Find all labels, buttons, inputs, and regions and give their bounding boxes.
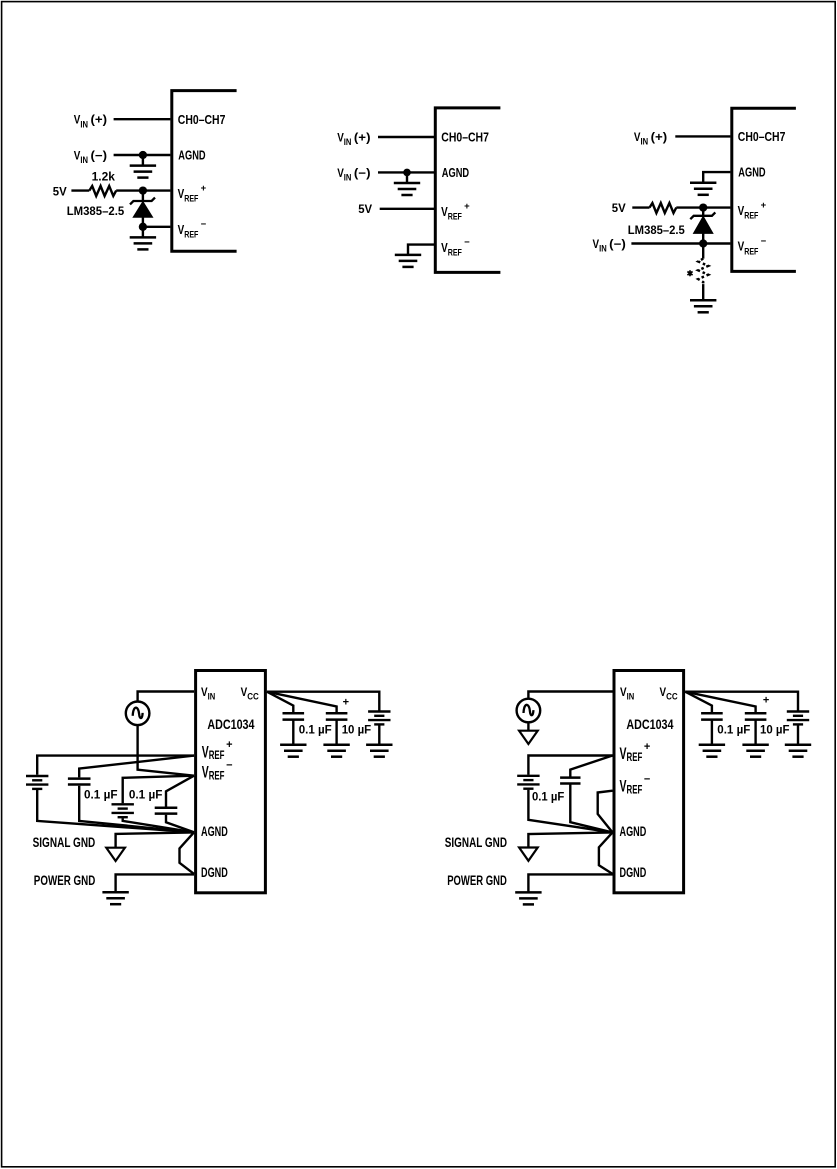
label * (asterisk) [687,270,692,276]
svg-text:AGND: AGND [442,165,469,180]
svg-text:CH0–CH7: CH0–CH7 [178,112,226,127]
svg-text:DGND: DGND [201,865,228,880]
ground (analog) [394,183,420,195]
ground (B3) [366,745,392,757]
battery B5 (supply) [787,712,809,725]
ground (reference) [395,255,421,267]
wire AC source to signal ground [527,722,529,730]
wire VIN(+) to CH0-CH7 [114,118,171,120]
junction dot on AGND wire [139,151,147,159]
AC signal source [126,702,150,726]
optional resistor (dotted) [698,259,708,285]
wire VREF+ to battery [528,756,612,775]
wire battery B3 to ground [378,724,380,744]
power ground [102,892,128,904]
ground (reference) [130,237,156,249]
wire capacitor C1 to AGND [79,786,194,833]
wire 5V to resistor [71,189,89,191]
wire [142,217,144,227]
zener diode anode triangle [694,216,713,233]
wire to ground [142,155,144,166]
wire capacitor C1 to VREF+ [79,756,194,778]
svg-text:POWER GND: POWER GND [34,873,96,888]
resistor (bias) [650,203,677,213]
wire SIGNAL GND to AGND [116,832,194,847]
ground (analog) [690,183,716,195]
wire capacitor C5 to VREF+ [570,756,612,777]
wire capacitor C3 to ground [292,720,294,745]
svg-text:DGND: DGND [620,865,647,880]
wire DGND to power ground [116,874,194,892]
svg-text:AGND: AGND [738,165,765,180]
svg-text:AGND: AGND [620,824,647,839]
wire capacitor C2 to AGND [166,815,194,833]
wire VIN(-) / VREF- [631,242,730,244]
wire VIN to AC source [528,692,612,699]
wire VCC rail [267,692,379,712]
wire VCC to capacitor C4 [267,692,337,714]
signal ground triangle [519,848,538,861]
wire [142,191,144,201]
AC signal source [517,699,541,723]
svg-text:LM385–2.5: LM385–2.5 [67,204,125,218]
power ground [515,892,541,904]
wire VREF- to AGND bracket [598,791,613,833]
wire battery B2 to AGND [123,818,194,832]
wire VCC rail [685,692,798,712]
ground (analog) [130,166,156,178]
svg-text:LM385–2.5: LM385–2.5 [628,223,685,237]
wire capacitor C4 to ground [335,720,337,745]
signal ground triangle [106,848,125,861]
wire VREF+ rail [37,756,194,775]
junction dot at VREF- node [699,239,707,247]
svg-text:+: + [343,696,349,708]
wire [702,208,704,216]
wire DGND to power ground [528,874,612,892]
IC box (ADC, top-left circuit) [172,91,237,252]
wire 5V to VREF+ [380,208,434,210]
svg-text:SIGNAL GND: SIGNAL GND [445,835,507,850]
capacitor C1 0.1uF [68,779,91,785]
zener cathode bar [130,198,155,205]
svg-text:AGND: AGND [178,148,205,163]
ground (reference) [690,300,716,312]
capacitor C5 0.1uF [560,778,580,784]
wire VIN to AC source [138,692,194,702]
IC box (ADC, top-middle circuit) [435,108,500,273]
wire SIGNAL GND to AGND [528,832,612,847]
svg-text:ADC1034: ADC1034 [626,717,674,732]
wire VCC to capacitor C3 [267,692,293,714]
wire VREF- to ground [408,245,434,255]
svg-text:0.1 µF: 0.1 µF [129,788,163,802]
svg-text:ADC1034: ADC1034 [207,717,255,732]
wire battery B4 to AGND [528,790,612,833]
zener diode LM385-2.5 [690,208,715,244]
battery B3 (supply) [368,712,390,725]
svg-text:+: + [763,694,769,706]
svg-text:CH0–CH7: CH0–CH7 [441,130,489,145]
wire VCC to capacitor C6 [685,692,712,714]
junction dot at VREF+ node [699,203,707,211]
svg-text:5V: 5V [358,202,372,216]
IC U1 ADC1034 box [196,671,266,893]
wire VCC to capacitor C7 [685,692,755,714]
wire AGND to ground [703,172,730,183]
wire VIN(+) to CH0-CH7 [378,136,434,138]
zener diode anode triangle [133,202,152,218]
ground (C3) [280,745,306,757]
wire resistor to VREF+ [676,206,730,208]
junction dot at VREF- node [139,223,147,231]
IC box (ADC, top-right circuit) [732,108,796,271]
svg-text:CH0–CH7: CH0–CH7 [738,129,786,144]
wire capacitor C2 to VREF- [166,776,194,807]
battery B4 (reference) [517,776,539,789]
junction dot on AGND wire [403,169,411,177]
svg-text:5V: 5V [53,184,67,198]
wire battery B1 to AGND [37,790,194,832]
ground (C7) [742,745,768,757]
zener cathode bar [690,212,715,219]
ground (B5) [785,745,811,757]
svg-text:SIGNAL GND: SIGNAL GND [33,835,96,850]
svg-text:0.1 µF: 0.1 µF [84,788,118,802]
svg-text:1.2k: 1.2k [92,170,116,184]
svg-text:POWER GND: POWER GND [447,873,507,888]
svg-text:0.1 µF: 0.1 µF [299,723,332,737]
svg-text:10 µF: 10 µF [760,723,790,737]
wire to optional resistor [702,244,704,259]
capacitor C2 0.1uF [155,808,178,814]
wire battery B5 to ground [797,724,799,744]
svg-text:AGND: AGND [201,824,228,839]
capacitor C4 10uF [326,713,348,719]
wire AC source to VREF- [138,725,194,776]
zener diode D1 LM385-2.5 [130,191,155,227]
signal source ground triangle [519,731,538,744]
bracket AGND-DGND [180,832,195,874]
wire capacitor C6 to ground [711,720,713,745]
capacitor C3 0.1uF [283,713,305,719]
capacitor C7 10uF [745,713,767,719]
wire resistor to VREF+ [116,189,170,191]
svg-text:0.1 µF: 0.1 µF [717,723,750,737]
ground (C4) [323,745,349,757]
junction dot at VREF+ node [139,186,147,194]
svg-text:0.1 µF: 0.1 µF [532,790,564,804]
wire VREF- to box [143,226,171,228]
svg-text:10 µF: 10 µF [342,723,372,737]
wire to ground [142,227,144,238]
bracket AGND-DGND [599,832,613,874]
wire VIN(-) to AGND [378,171,434,173]
ground (C6) [699,745,725,757]
wire VIN(-) to AGND [114,154,171,156]
wire 5V to resistor [632,206,649,208]
wire battery B2 to VREF- [123,776,194,804]
wire to ground [702,284,704,300]
wire VIN(+) to CH0-CH7 [675,135,730,137]
svg-text:5V: 5V [612,201,626,215]
resistor R1 1.2k [89,186,116,196]
wire [702,233,704,243]
capacitor C6 0.1uF [701,713,723,719]
battery B2 (reference) [112,804,134,817]
wire capacitor C5 to AGND [570,784,612,833]
battery B1 (reference) [26,776,48,789]
wire to ground [406,172,408,183]
wire capacitor C7 to ground [754,720,756,745]
IC U2 ADC1034 box [614,671,684,893]
